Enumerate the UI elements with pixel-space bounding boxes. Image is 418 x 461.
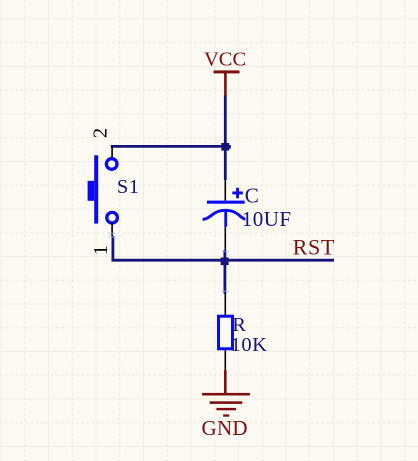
- svg-text:10K: 10K: [231, 334, 268, 356]
- svg-text:VCC: VCC: [204, 49, 246, 71]
- svg-text:C: C: [245, 183, 259, 207]
- button cap: [88, 181, 95, 201]
- actuator bar: [94, 155, 98, 223]
- svg-text:GND: GND: [202, 416, 248, 440]
- svg-text:S1: S1: [117, 176, 139, 198]
- pin 1 lead: [224, 293, 226, 315]
- resistor R: [219, 293, 268, 371]
- svg-text:R: R: [232, 314, 246, 336]
- pin 1 lead: [224, 180, 226, 201]
- junction at VCC wire: [221, 143, 231, 151]
- pin 2 terminal circle: [106, 159, 117, 170]
- pin 2 lead: [224, 350, 226, 370]
- pin 2 lead: [224, 227, 226, 250]
- pin hotspot marks: [109, 233, 229, 292]
- pin 1 lead: [111, 223, 113, 237]
- pin 1 terminal circle: [107, 212, 118, 223]
- plus sign: [232, 192, 243, 195]
- pin 2 lead: [111, 147, 113, 159]
- top plate: [207, 201, 245, 204]
- wire VCC to capacitor: [224, 96, 227, 181]
- wire S1 pin 1 to RST: [113, 236, 334, 260]
- plate stub: [224, 211, 227, 227]
- junction at RST wire: [221, 258, 229, 266]
- body: [219, 316, 233, 349]
- power port VCC: [204, 49, 246, 96]
- svg-text:RST: RST: [293, 234, 335, 259]
- wire capacitor to resistor: [223, 250, 226, 294]
- power port GND: [202, 370, 250, 440]
- bottom plate (curved): [203, 210, 246, 219]
- wire junction to S1 pin 2: [111, 145, 227, 148]
- svg-text:2: 2: [90, 128, 112, 138]
- pushbutton S1: [88, 128, 140, 255]
- svg-text:1: 1: [90, 245, 112, 255]
- svg-text:10UF: 10UF: [242, 207, 292, 231]
- capacitor C: [203, 180, 292, 250]
